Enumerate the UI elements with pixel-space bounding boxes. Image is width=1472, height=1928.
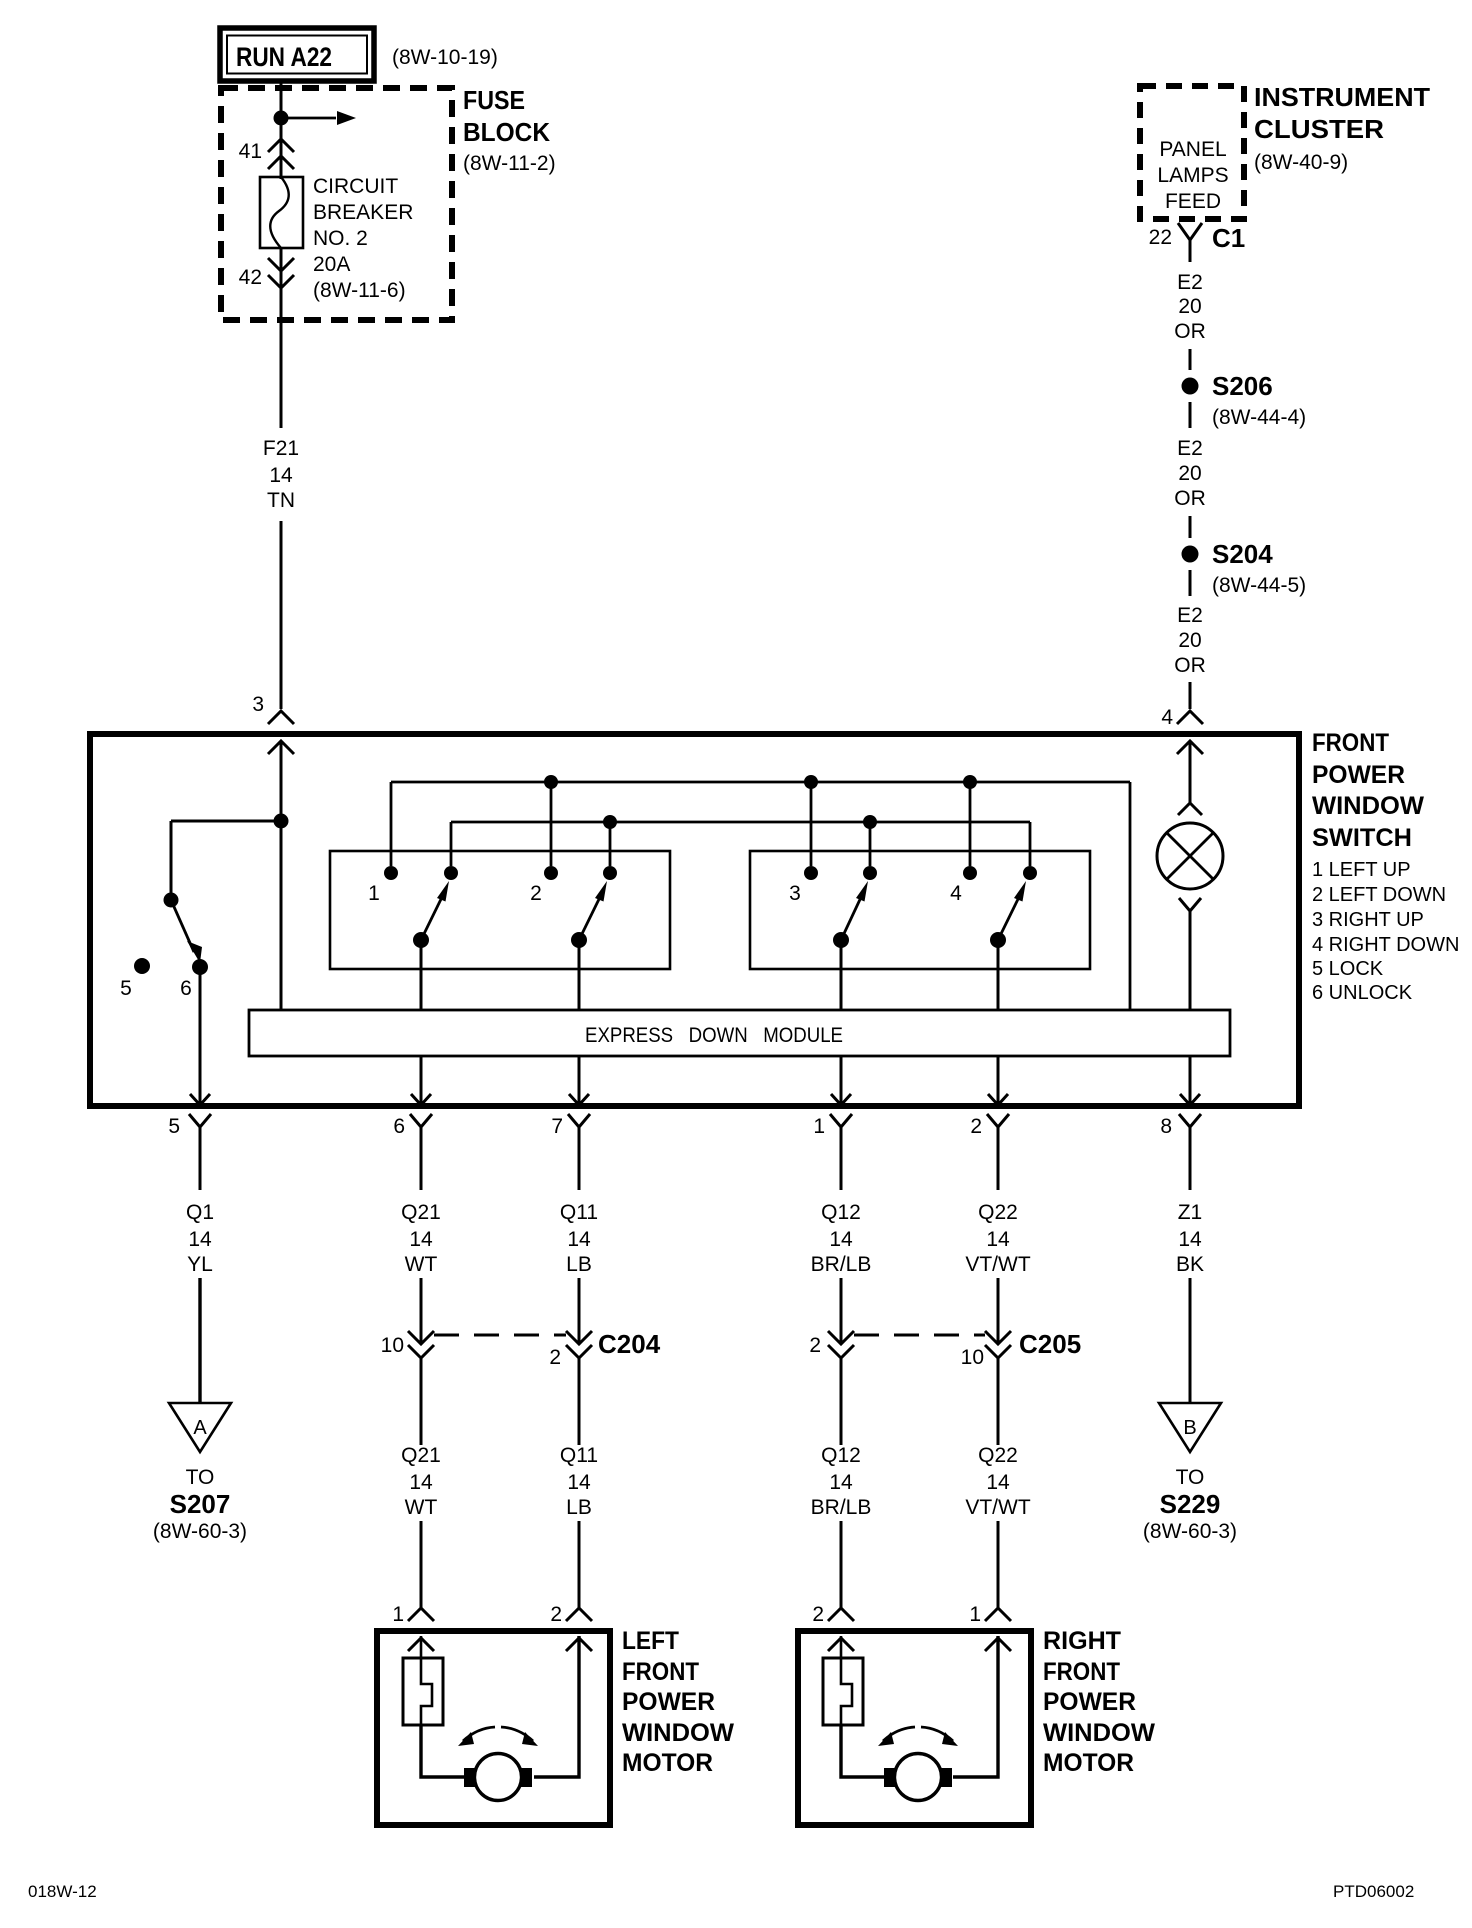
svg-text:A: A — [193, 1417, 207, 1439]
wire Q21 to left motor — [420, 1521, 423, 1608]
svg-text:B: B — [1183, 1417, 1196, 1439]
svg-text:6: 6 — [393, 1115, 405, 1138]
svg-text:PANEL: PANEL — [1159, 138, 1226, 161]
arm target contact left-1 — [444, 866, 458, 880]
pin 1 exit — [831, 1094, 851, 1105]
svg-text:E2: E2 — [1177, 437, 1203, 460]
svg-text:LEFT: LEFT — [622, 1627, 679, 1655]
switch inner chevron pin 3 — [268, 741, 294, 754]
svg-text:BREAKER: BREAKER — [313, 201, 413, 224]
right front power window motor box — [798, 1631, 1031, 1825]
svg-text:2: 2 — [530, 882, 542, 905]
svg-text:5: 5 — [168, 1115, 180, 1138]
top rail drop to module — [1129, 782, 1132, 1010]
pin 8 exit — [1180, 1094, 1200, 1105]
svg-text:VT/WT: VT/WT — [965, 1253, 1030, 1276]
svg-text:41: 41 — [239, 140, 262, 163]
wire breaker to pin 42 — [280, 248, 283, 296]
wire F21 upper segment — [280, 292, 283, 428]
top rail junction above contact 3 — [804, 775, 818, 789]
svg-text:LB: LB — [566, 1253, 592, 1276]
svg-text:6 UNLOCK: 6 UNLOCK — [1312, 982, 1413, 1004]
wire Q12 upper segment — [840, 1127, 843, 1190]
motor breaker wire to armature — [421, 1725, 464, 1777]
svg-text:Q22: Q22 — [978, 1444, 1018, 1467]
svg-text:C205: C205 — [1019, 1329, 1081, 1359]
svg-text:C204: C204 — [598, 1329, 661, 1359]
svg-text:E2: E2 — [1177, 604, 1203, 627]
contact 2 LEFT DOWN — [544, 866, 558, 880]
switch arm 4 — [990, 932, 1006, 948]
arm target contact left-2 — [603, 866, 617, 880]
svg-text:Q11: Q11 — [560, 1444, 598, 1467]
svg-text:1: 1 — [813, 1115, 825, 1138]
svg-text:2: 2 — [549, 1346, 561, 1369]
connector C204 pin 10 — [408, 1331, 434, 1344]
svg-text:14: 14 — [188, 1228, 212, 1251]
left motor pin 1 connector — [408, 1608, 434, 1621]
svg-text:5: 5 — [120, 977, 132, 1000]
svg-text:BR/LB: BR/LB — [811, 1496, 872, 1519]
connector C1 pin 22 — [1178, 223, 1202, 240]
svg-text:Q21: Q21 — [401, 1444, 441, 1467]
svg-text:RUN A22: RUN A22 — [236, 42, 332, 72]
module output wire pin 6 — [420, 1056, 423, 1105]
svg-text:20A: 20A — [313, 253, 350, 276]
connector pin 3 into switch — [268, 711, 294, 724]
top rail junction above contact 4 — [963, 775, 977, 789]
wire Q22 upper segment — [997, 1127, 1000, 1190]
motor armature — [895, 1754, 942, 1801]
svg-text:1: 1 — [368, 882, 380, 905]
wire Q1 lower segment — [198, 1278, 201, 1403]
svg-text:(8W-44-4): (8W-44-4) — [1212, 406, 1306, 429]
junction node in fuse block — [274, 111, 289, 126]
svg-text:BLOCK: BLOCK — [463, 117, 550, 147]
connector C205 pin 2 — [828, 1331, 854, 1344]
motor armature terminals — [884, 1768, 897, 1787]
svg-text:CLUSTER: CLUSTER — [1254, 114, 1384, 144]
svg-text:Q1: Q1 — [186, 1201, 214, 1224]
svg-text:PTD06002: PTD06002 — [1333, 1882, 1414, 1901]
svg-text:(8W-11-6): (8W-11-6) — [313, 279, 406, 302]
svg-text:C1: C1 — [1212, 223, 1245, 253]
svg-text:14: 14 — [409, 1471, 433, 1494]
svg-text:14: 14 — [986, 1471, 1010, 1494]
connector pin 42 — [268, 258, 294, 271]
switch arm 2 — [571, 932, 587, 948]
motor right side wire — [953, 1636, 998, 1777]
svg-text:20: 20 — [1178, 295, 1201, 318]
svg-text:14: 14 — [1178, 1228, 1202, 1251]
contact 1 LEFT UP — [384, 866, 398, 880]
wire Q12 to right motor — [840, 1521, 843, 1608]
svg-text:(8W-44-5): (8W-44-5) — [1212, 574, 1306, 597]
svg-text:14: 14 — [567, 1471, 591, 1494]
svg-text:(8W-60-3): (8W-60-3) — [1143, 1520, 1237, 1543]
switch inner chevron pin 4 — [1177, 741, 1203, 754]
svg-text:14: 14 — [269, 464, 293, 487]
pin 2 exit — [988, 1094, 1008, 1105]
svg-text:3: 3 — [252, 693, 264, 716]
svg-text:4 RIGHT DOWN: 4 RIGHT DOWN — [1312, 934, 1459, 956]
wire Q21 to connector C204 — [420, 1278, 423, 1344]
svg-text:BK: BK — [1176, 1253, 1204, 1276]
svg-text:14: 14 — [829, 1228, 853, 1251]
arm target contact right-3 — [863, 866, 877, 880]
right motor pin 2 connector — [828, 1608, 854, 1621]
illumination lamp — [1157, 823, 1223, 889]
top rail drop to contact 1 — [390, 782, 393, 866]
left motor pin 2 connector — [566, 1608, 592, 1621]
left rocker group box — [330, 851, 670, 969]
svg-text:1 LEFT UP: 1 LEFT UP — [1312, 859, 1411, 881]
power feed box RUN A22 — [220, 28, 374, 81]
svg-text:2 LEFT DOWN: 2 LEFT DOWN — [1312, 884, 1446, 906]
svg-text:7: 7 — [551, 1115, 563, 1138]
svg-text:14: 14 — [986, 1228, 1010, 1251]
C205 dashed connector line — [854, 1334, 985, 1337]
svg-text:Z1: Z1 — [1178, 1201, 1203, 1224]
wire Z1 upper segment — [1189, 1127, 1192, 1190]
pin 5 exit — [190, 1094, 210, 1105]
svg-text:1: 1 — [392, 1603, 404, 1626]
wire to lock switch — [171, 820, 281, 823]
module output wire pin 7 — [578, 1056, 581, 1105]
arrow to other circuits — [281, 117, 336, 120]
svg-text:VT/WT: VT/WT — [965, 1496, 1030, 1519]
lock contact 6 — [192, 959, 208, 975]
svg-text:1: 1 — [969, 1603, 981, 1626]
wire segment to S206 — [1189, 349, 1192, 370]
svg-text:POWER: POWER — [1043, 1688, 1136, 1716]
svg-text:TN: TN — [267, 489, 295, 512]
svg-text:Q11: Q11 — [560, 1201, 598, 1224]
svg-text:F21: F21 — [263, 437, 299, 460]
svg-text:Q22: Q22 — [978, 1201, 1018, 1224]
lock switch arm — [171, 900, 194, 952]
contact 3 RIGHT UP — [804, 866, 818, 880]
left front power window motor box — [377, 1631, 610, 1825]
pin 7 exit — [569, 1094, 589, 1105]
instrument cluster dashed box — [1140, 86, 1244, 219]
svg-text:CIRCUIT: CIRCUIT — [313, 175, 398, 198]
wire Q22 lower segment — [997, 1278, 1000, 1344]
wire F21 lower segment — [280, 521, 283, 709]
svg-text:POWER: POWER — [1312, 761, 1405, 789]
arm 1 wire to module — [420, 940, 423, 1010]
svg-text:FUSE: FUSE — [463, 85, 525, 115]
svg-text:20: 20 — [1178, 462, 1201, 485]
wire Q12 to connector C205 — [840, 1278, 843, 1344]
svg-text:E2: E2 — [1177, 271, 1203, 294]
module output wire pin 2 — [997, 1056, 1000, 1105]
svg-text:14: 14 — [829, 1471, 853, 1494]
svg-text:FEED: FEED — [1165, 190, 1221, 213]
second rail drop to arm contact 4 — [1029, 822, 1032, 866]
wire Q21 below C204 — [420, 1358, 423, 1445]
svg-text:INSTRUMENT: INSTRUMENT — [1254, 82, 1430, 112]
splice S206 — [1182, 378, 1199, 395]
motor rotation arrows — [463, 1727, 495, 1741]
second rail junction arm contact 3 — [863, 815, 877, 829]
right rocker group box — [750, 851, 1090, 969]
motor thermal breaker — [403, 1658, 443, 1725]
svg-text:FRONT: FRONT — [1043, 1658, 1120, 1686]
svg-text:OR: OR — [1174, 320, 1206, 343]
svg-text:018W-12: 018W-12 — [28, 1882, 97, 1901]
svg-text:(8W-60-3): (8W-60-3) — [153, 1520, 247, 1543]
arm 4 wire to module — [997, 940, 1000, 1010]
wire pin3 vertical to module — [280, 741, 283, 1010]
connector C204 pin 2 — [566, 1331, 592, 1344]
svg-text:3 RIGHT UP: 3 RIGHT UP — [1312, 909, 1424, 931]
wire to pin 4 — [1189, 682, 1192, 709]
svg-text:TO: TO — [1176, 1466, 1205, 1489]
svg-text:FRONT: FRONT — [1312, 729, 1389, 757]
module output wire pin 8 — [1189, 1056, 1192, 1105]
svg-text:14: 14 — [567, 1228, 591, 1251]
wire Q11 to left motor — [578, 1521, 581, 1608]
svg-text:2: 2 — [812, 1603, 824, 1626]
svg-text:(8W-40-9): (8W-40-9) — [1254, 151, 1348, 174]
svg-text:POWER: POWER — [622, 1688, 715, 1716]
express down module box — [249, 1010, 1230, 1056]
svg-text:MOTOR: MOTOR — [622, 1749, 713, 1777]
svg-text:S207: S207 — [170, 1489, 231, 1519]
svg-text:MOTOR: MOTOR — [1043, 1749, 1134, 1777]
circuit breaker No. 2 20A — [260, 177, 303, 248]
motor breaker wire to armature — [841, 1725, 884, 1777]
svg-text:42: 42 — [239, 266, 262, 289]
arm target contact right-4 — [1023, 866, 1037, 880]
svg-text:10: 10 — [961, 1346, 984, 1369]
svg-text:2: 2 — [809, 1334, 821, 1357]
lamp wire to module — [1189, 911, 1192, 1010]
svg-text:WINDOW: WINDOW — [1043, 1719, 1155, 1747]
svg-text:(8W-11-2): (8W-11-2) — [463, 152, 556, 175]
svg-text:WT: WT — [405, 1496, 438, 1519]
svg-text:Q21: Q21 — [401, 1201, 441, 1224]
off-page triangle B — [1159, 1403, 1221, 1452]
wire segment to S204 — [1189, 516, 1192, 538]
junction on wire 3 — [274, 814, 289, 829]
right motor pin 1 connector — [985, 1608, 1011, 1621]
switch arm 1 — [413, 932, 429, 948]
svg-text:S204: S204 — [1212, 539, 1273, 569]
svg-text:WINDOW: WINDOW — [1312, 792, 1424, 820]
svg-text:4: 4 — [950, 882, 962, 905]
svg-text:Q12: Q12 — [821, 1201, 861, 1224]
motor armature terminals — [464, 1768, 477, 1787]
second rail wire — [451, 821, 1030, 824]
wire Q12 below C205 — [840, 1358, 843, 1445]
wire C1 to E2 label — [1189, 240, 1192, 262]
module output wire pin 1 — [840, 1056, 843, 1105]
contact 4 RIGHT DOWN — [963, 866, 977, 880]
svg-text:NO. 2: NO. 2 — [313, 227, 368, 250]
motor armature — [475, 1754, 522, 1801]
lamp upper chevron — [1178, 803, 1202, 815]
connector pin 41 — [268, 139, 294, 152]
arm 3 wire to module — [840, 940, 843, 1010]
svg-text:14: 14 — [409, 1228, 433, 1251]
svg-text:WINDOW: WINDOW — [622, 1719, 734, 1747]
svg-text:2: 2 — [550, 1603, 562, 1626]
lock switch pivot — [164, 893, 179, 908]
svg-text:EXPRESS DOWN MODULE: EXPRESS DOWN MODULE — [585, 1024, 843, 1047]
svg-text:10: 10 — [381, 1334, 404, 1357]
wire Q21 upper segment — [420, 1127, 423, 1190]
motor rotation arrows — [883, 1727, 915, 1741]
svg-text:LB: LB — [566, 1496, 592, 1519]
wire from RUN A22 into fuse block — [280, 81, 283, 179]
splice S204 — [1182, 546, 1199, 563]
svg-text:5 LOCK: 5 LOCK — [1312, 958, 1384, 980]
wire segment below S204 — [1189, 570, 1192, 596]
svg-text:S206: S206 — [1212, 371, 1273, 401]
svg-text:6: 6 — [180, 977, 192, 1000]
connector pin 4 into switch — [1177, 711, 1203, 724]
pin 6 exit — [411, 1094, 431, 1105]
svg-text:TO: TO — [186, 1466, 215, 1489]
svg-text:8: 8 — [1160, 1115, 1172, 1138]
wire Q1 upper segment — [199, 1127, 202, 1190]
wire contact6 to pin5 — [199, 967, 202, 1105]
top rail wire — [391, 781, 1130, 784]
svg-text:20: 20 — [1178, 629, 1201, 652]
svg-text:S229: S229 — [1160, 1489, 1221, 1519]
svg-text:RIGHT: RIGHT — [1043, 1627, 1121, 1655]
fuse block dashed box — [221, 88, 452, 320]
svg-text:SWITCH: SWITCH — [1312, 824, 1412, 852]
svg-text:YL: YL — [187, 1253, 213, 1276]
svg-text:2: 2 — [970, 1115, 982, 1138]
svg-text:Q12: Q12 — [821, 1444, 861, 1467]
lamp lower fork — [1179, 898, 1201, 911]
front power window switch box — [90, 734, 1299, 1106]
motor thermal breaker — [823, 1658, 863, 1725]
switch arm 3 — [833, 932, 849, 948]
illumination lamp wire from pin 4 — [1189, 741, 1192, 803]
svg-text:WT: WT — [405, 1253, 438, 1276]
wire Q11 upper segment — [578, 1127, 581, 1190]
wire Q11 lower segment — [578, 1278, 581, 1344]
svg-text:22: 22 — [1149, 226, 1172, 249]
off-page triangle A — [169, 1403, 231, 1452]
arm 2 wire to module — [578, 940, 581, 1010]
second rail junction arm contact 2 — [603, 815, 617, 829]
C204 dashed connector line — [434, 1334, 566, 1337]
wire segment below S206 — [1189, 402, 1192, 428]
motor right side wire — [534, 1636, 579, 1777]
svg-text:3: 3 — [789, 882, 801, 905]
connector C205 pin 10 — [985, 1331, 1011, 1344]
svg-text:FRONT: FRONT — [622, 1658, 699, 1686]
second rail drop to arm contact 1 — [450, 822, 453, 866]
wire Q22 to right motor — [997, 1521, 1000, 1608]
svg-text:LAMPS: LAMPS — [1157, 164, 1228, 187]
svg-text:OR: OR — [1174, 487, 1206, 510]
svg-text:4: 4 — [1161, 706, 1173, 729]
svg-text:BR/LB: BR/LB — [811, 1253, 872, 1276]
wire Z1 lower segment — [1189, 1278, 1192, 1403]
lock contact 5 — [134, 958, 150, 974]
top rail junction above contact 2 — [544, 775, 558, 789]
svg-text:(8W-10-19): (8W-10-19) — [392, 46, 498, 69]
svg-text:OR: OR — [1174, 654, 1206, 677]
